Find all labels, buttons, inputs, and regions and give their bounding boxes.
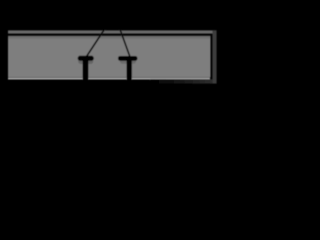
screw S1 shank [83, 58, 89, 80]
screw S2 shank [127, 58, 132, 80]
screw S2 shadow [120, 58, 136, 64]
wall bottom light line [8, 78, 210, 80]
leader line to screw S2 [115, 14, 131, 57]
wall band [8, 36, 211, 78]
leader line to screw S1 [87, 14, 115, 57]
screw S2 head [118, 56, 137, 61]
screw S1 head [78, 56, 94, 61]
screw S1 shadow [78, 58, 93, 64]
wall top edge line [8, 30, 217, 33]
shadow under wall near right end [150, 79, 212, 83]
right end cap [212, 30, 216, 83]
